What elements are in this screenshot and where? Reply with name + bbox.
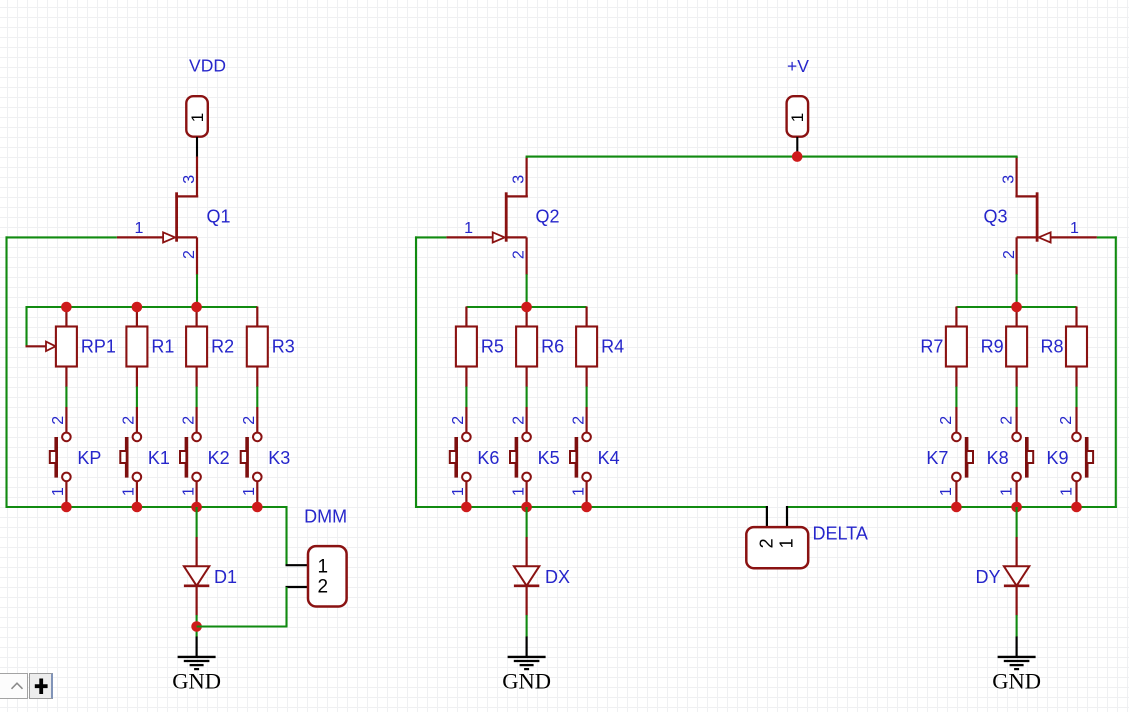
svg-text:K8: K8 — [987, 448, 1009, 468]
svg-text:2: 2 — [1058, 416, 1075, 425]
junction K6 bottom — [461, 502, 472, 513]
wire top supply bus — [526, 156, 1018, 158]
pin number Q3.3 — [1001, 175, 1018, 184]
junction R6 top — [521, 302, 532, 313]
net label +V — [787, 56, 809, 76]
ui add button — [29, 673, 53, 698]
junction RP1 top — [61, 302, 72, 313]
wire DY cathode — [1016, 615, 1018, 637]
svg-text:K5: K5 — [538, 448, 560, 468]
svg-text:3: 3 — [181, 175, 198, 184]
svg-text:2: 2 — [938, 416, 955, 425]
pin +V.1 lead — [796, 137, 798, 157]
pin DMM.2 lead — [286, 586, 309, 588]
svg-text:1: 1 — [464, 220, 473, 237]
svg-text:3: 3 — [1001, 175, 1018, 184]
wire Q3 emitter to bus — [1016, 274, 1018, 307]
svg-text:Q2: Q2 — [536, 207, 560, 227]
junction KP bottom — [61, 502, 72, 513]
label DMM — [304, 507, 347, 527]
junction R1 top — [132, 302, 143, 313]
label DX — [545, 567, 570, 587]
wire Q2 emitter to bus — [526, 274, 528, 307]
svg-text:1: 1 — [450, 487, 467, 496]
transistor Q2 — [446, 157, 527, 275]
svg-text:1: 1 — [135, 220, 144, 237]
wire Q2 collector from bus — [526, 157, 528, 158]
junction K8 bottom — [1011, 502, 1022, 513]
resistor RP1 — [56, 307, 116, 408]
pin number Q2.3 — [511, 175, 528, 184]
svg-text:K4: K4 — [598, 448, 620, 468]
svg-text:1: 1 — [50, 487, 67, 496]
switch K3 — [241, 407, 262, 507]
label DY — [975, 567, 1000, 587]
svg-text:1: 1 — [777, 538, 797, 548]
svg-text:2: 2 — [318, 577, 329, 598]
wire bottom bus left — [6, 506, 287, 508]
resistor R8 — [1040, 307, 1087, 408]
wire left rail — [5, 236, 7, 508]
svg-text:2: 2 — [511, 250, 528, 259]
svg-text:2: 2 — [570, 416, 587, 425]
wire DMM pin 2 to D1 node — [197, 587, 288, 627]
ground symbol GND (left) — [172, 637, 221, 694]
resistor R5 — [456, 307, 504, 408]
pin number Q2.2 — [511, 250, 528, 259]
switch K4 — [570, 407, 591, 507]
diode DX — [514, 507, 539, 616]
junction K2 bottom — [191, 502, 202, 513]
wire bottom bus right — [787, 506, 1117, 508]
wire bus to DMM pin 1 — [285, 506, 287, 565]
svg-text:K3: K3 — [268, 448, 290, 468]
resistor R7 — [920, 307, 967, 408]
wire resistor bus left — [27, 306, 258, 308]
wire Q1 base net — [6, 236, 117, 238]
wire DX cathode — [526, 615, 528, 637]
svg-text:1: 1 — [318, 557, 329, 578]
svg-text:RP1: RP1 — [81, 337, 116, 357]
svg-text:2: 2 — [180, 416, 197, 425]
wire resistor bus right — [956, 306, 1076, 308]
pin number Q1.2 — [181, 250, 198, 259]
junction D1 cathode node — [191, 621, 202, 632]
RP1 wiper pin lead — [26, 345, 47, 347]
svg-text:DY: DY — [975, 567, 1000, 587]
pin VDD.1 lead — [196, 137, 198, 157]
svg-text:R5: R5 — [481, 337, 504, 357]
ground symbol GND (middle) — [502, 637, 551, 694]
svg-text:KP: KP — [77, 448, 101, 468]
svg-text:1: 1 — [570, 487, 587, 496]
wire right rail — [1115, 236, 1117, 508]
svg-text:+V: +V — [787, 56, 809, 76]
pin numbers and label K6 — [450, 416, 499, 496]
svg-text:2: 2 — [450, 416, 467, 425]
switch KP — [50, 407, 71, 507]
connector +V pin header — [787, 96, 809, 137]
junction +V node — [792, 151, 803, 162]
wire bottom bus middle — [415, 506, 767, 508]
svg-text:1: 1 — [188, 113, 207, 122]
label D1 — [214, 567, 237, 587]
wire Q3 base net — [1097, 236, 1117, 238]
resistor R3 — [247, 307, 295, 408]
switch K2 — [180, 407, 201, 507]
svg-text:K6: K6 — [477, 448, 499, 468]
svg-text:1: 1 — [121, 487, 138, 496]
svg-text:Q1: Q1 — [207, 207, 231, 227]
svg-text:1: 1 — [510, 487, 527, 496]
svg-text:VDD: VDD — [189, 56, 226, 76]
junction R2 top — [191, 302, 202, 313]
pin number Q3.2 — [1001, 250, 1018, 259]
switch K5 — [510, 407, 531, 507]
pin numbers and label K4 — [570, 416, 619, 496]
wire D1 cathode to node — [196, 615, 198, 637]
resistor R6 — [516, 307, 564, 408]
transistor Q1 — [117, 157, 198, 275]
switch K1 — [120, 407, 141, 507]
pin numbers and label K2 — [180, 416, 229, 496]
RP1 wiper arrow — [46, 342, 56, 351]
pin numbers and label K1 — [121, 416, 170, 496]
switch K7 — [952, 407, 973, 507]
connector DMM — [308, 546, 347, 606]
switch K8 — [1012, 407, 1033, 507]
wire Q1 emitter to bus — [196, 274, 198, 307]
svg-text:2: 2 — [998, 416, 1015, 425]
connector DELTA — [746, 527, 808, 568]
svg-text:2: 2 — [50, 416, 67, 425]
svg-text:GND: GND — [502, 669, 551, 694]
ground symbol GND (right) — [992, 637, 1041, 694]
ui collapse button — [0, 673, 28, 698]
svg-text:2: 2 — [1001, 250, 1018, 259]
resistor R2 — [186, 307, 234, 408]
junction K5 bottom — [521, 502, 532, 513]
junction K1 bottom — [132, 502, 143, 513]
svg-text:DELTA: DELTA — [813, 524, 868, 544]
svg-text:R6: R6 — [541, 337, 564, 357]
label Q2 — [536, 207, 560, 227]
svg-text:R4: R4 — [601, 337, 624, 357]
junction K7 bottom — [951, 502, 962, 513]
switch K9 — [1072, 407, 1093, 507]
svg-text:2: 2 — [756, 538, 776, 548]
wire Q3 collector from bus — [1016, 157, 1018, 158]
svg-text:1: 1 — [1058, 487, 1075, 496]
pin number Q1.3 — [181, 175, 198, 184]
svg-text:2: 2 — [121, 416, 138, 425]
svg-text:K1: K1 — [148, 448, 170, 468]
resistor R4 — [576, 307, 624, 408]
svg-text:K9: K9 — [1046, 448, 1068, 468]
svg-text:2: 2 — [241, 416, 258, 425]
connector VDD pin header — [186, 96, 208, 137]
svg-text:GND: GND — [172, 669, 221, 694]
pin numbers and label K9 — [1046, 416, 1075, 496]
svg-text:Q3: Q3 — [983, 207, 1007, 227]
svg-text:1: 1 — [938, 487, 955, 496]
pin numbers and label K7 — [926, 416, 955, 496]
svg-text:R9: R9 — [981, 337, 1004, 357]
svg-text:2: 2 — [510, 416, 527, 425]
wire RP1 wiper loop — [25, 306, 27, 346]
pin DELTA.2 lead — [766, 506, 768, 528]
svg-text:1: 1 — [1070, 220, 1079, 237]
svg-text:3: 3 — [511, 175, 528, 184]
wire resistor bus middle — [466, 306, 586, 308]
svg-text:K7: K7 — [926, 448, 948, 468]
pin number Q1.1 — [135, 220, 144, 237]
svg-text:1: 1 — [180, 487, 197, 496]
pin number Q3.1 — [1070, 220, 1079, 237]
svg-text:GND: GND — [992, 669, 1041, 694]
wire Q2 base net — [415, 236, 446, 238]
svg-text:K2: K2 — [208, 448, 230, 468]
svg-text:2: 2 — [181, 250, 198, 259]
svg-text:DX: DX — [545, 567, 570, 587]
net label VDD — [189, 56, 226, 76]
pin numbers and label K8 — [987, 416, 1016, 496]
diode D1 — [184, 507, 209, 616]
resistor R9 — [981, 307, 1028, 408]
svg-text:R8: R8 — [1040, 337, 1063, 357]
label DELTA — [813, 524, 868, 544]
pin DELTA.1 lead — [786, 506, 788, 528]
svg-text:R7: R7 — [920, 337, 943, 357]
junction K3 bottom — [252, 502, 263, 513]
label Q1 — [207, 207, 231, 227]
svg-text:1: 1 — [788, 113, 807, 122]
svg-text:1: 1 — [241, 487, 258, 496]
pin number Q2.1 — [464, 220, 473, 237]
resistor R1 — [126, 307, 174, 408]
svg-text:DMM: DMM — [304, 507, 347, 527]
pin numbers and label KP — [50, 416, 101, 496]
pin numbers and label K3 — [241, 416, 290, 496]
pin numbers and label K5 — [510, 416, 559, 496]
label Q3 — [983, 207, 1007, 227]
wire middle rail — [415, 236, 417, 508]
diode DY — [1004, 507, 1029, 616]
transistor Q3 — [1015, 157, 1097, 275]
pin DMM.1 lead — [286, 564, 309, 566]
svg-text:1: 1 — [998, 487, 1015, 496]
svg-text:R3: R3 — [272, 337, 295, 357]
svg-text:D1: D1 — [214, 567, 237, 587]
switch K6 — [450, 407, 471, 507]
junction R9 top — [1011, 302, 1022, 313]
junction K4 bottom — [581, 502, 592, 513]
svg-text:R1: R1 — [151, 337, 174, 357]
junction K9 bottom — [1071, 502, 1082, 513]
svg-text:R2: R2 — [211, 337, 234, 357]
